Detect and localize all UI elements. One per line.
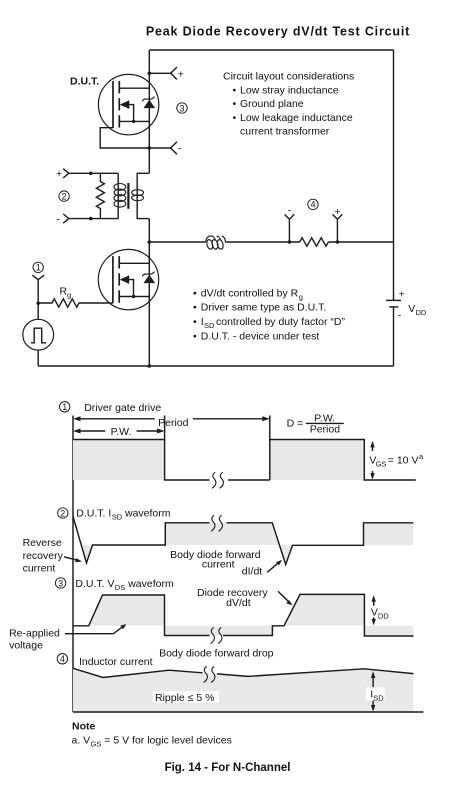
svg-text:current: current <box>23 562 56 574</box>
node bottom junction <box>148 364 152 368</box>
waveform 4 inductor current <box>57 654 152 668</box>
svg-text:recovery: recovery <box>23 550 64 562</box>
arrows V_GS <box>369 441 424 480</box>
wire right bus lower <box>393 307 395 366</box>
fill right block <box>364 523 414 545</box>
node Rg junction <box>36 302 40 306</box>
svg-text:P.W.: P.W. <box>314 412 335 424</box>
svg-text:-: - <box>398 309 402 321</box>
fraction D = P.W./Period <box>287 412 344 435</box>
wire gate-source wrap D.U.T. <box>100 128 149 148</box>
diode body D.U.T. <box>142 97 155 109</box>
fill body diode forward <box>165 523 279 545</box>
svg-text:Re-applied: Re-applied <box>9 627 60 639</box>
node 1 marker <box>33 262 43 273</box>
svg-text:2: 2 <box>62 191 67 201</box>
fill inductor current <box>73 668 413 712</box>
svg-text:4: 4 <box>60 654 65 664</box>
svg-text:dV/dt controlled by R: dV/dt controlled by R <box>201 287 299 299</box>
node minus probe transformer <box>57 213 119 225</box>
label dI/dt <box>242 560 282 578</box>
break symbol wf4 <box>204 667 215 683</box>
svg-text:Ripple ≤ 5 %: Ripple ≤ 5 % <box>155 692 214 704</box>
battery VDD <box>386 289 427 322</box>
svg-text:•: • <box>193 287 197 299</box>
fill strip body diode drop <box>165 626 273 636</box>
svg-text:controlled by duty factor “D”: controlled by duty factor “D” <box>216 316 345 328</box>
svg-text:SD: SD <box>112 512 123 521</box>
transistor D.U.T. upper MOSFET <box>98 74 158 134</box>
diode body driver <box>142 272 155 284</box>
waveform 2 D.U.T. I_SD <box>58 507 171 521</box>
fill pulse 2 VDS <box>284 594 364 625</box>
svg-text:Reverse: Reverse <box>23 537 62 549</box>
svg-text:a. V: a. V <box>72 735 91 747</box>
trace gate drive <box>73 416 416 481</box>
fill strip right VDS <box>364 626 413 636</box>
svg-text:Circuit layout considerations: Circuit layout considerations <box>223 71 354 83</box>
svg-text:Fig. 14 - For N-Channel: Fig. 14 - For N-Channel <box>165 762 291 774</box>
label body diode forward current <box>170 549 261 571</box>
svg-text:V: V <box>408 303 415 315</box>
svg-text:= 10 V: = 10 V <box>388 455 419 467</box>
svg-text:current transformer: current transformer <box>240 126 330 138</box>
svg-text:+: + <box>178 68 184 80</box>
arrow period <box>73 416 270 429</box>
svg-text:= 5 V for logic level devices: = 5 V for logic level devices <box>104 735 232 747</box>
svg-text:DS: DS <box>115 583 125 592</box>
resistor transformer damping <box>96 173 104 218</box>
svg-text:-: - <box>288 205 292 217</box>
break symbol wf1 <box>212 472 223 488</box>
wire left bus mid <box>148 219 150 366</box>
generator pulse source <box>23 303 54 366</box>
transistor driver lower MOSFET <box>98 249 158 309</box>
svg-text:dI/dt: dI/dt <box>242 566 263 578</box>
svg-text:Body diode forward drop: Body diode forward drop <box>159 647 274 659</box>
svg-text:Peak Diode Recovery dV/dt Test: Peak Diode Recovery dV/dt Test Circuit <box>146 25 410 39</box>
svg-text:Period: Period <box>158 417 189 429</box>
svg-text:•: • <box>233 98 237 110</box>
fill pulse 1 VDS <box>89 595 165 626</box>
break symbol wf2 <box>211 515 222 531</box>
label re-applied voltage <box>9 624 126 651</box>
svg-text:•: • <box>193 331 197 343</box>
svg-text:dV/dt: dV/dt <box>226 597 251 609</box>
svg-text:•: • <box>193 302 197 314</box>
svg-text:-: - <box>178 143 182 155</box>
note a <box>72 735 232 749</box>
waveform 1 driver gate drive <box>59 402 161 414</box>
svg-text:+: + <box>56 168 62 180</box>
text dV/dt bullets <box>193 287 345 342</box>
waveform 3 D.U.T. V_DS <box>55 578 174 592</box>
wire left bus upper <box>148 50 150 173</box>
svg-text:GS: GS <box>376 459 387 468</box>
node 4 marker <box>308 199 318 210</box>
svg-text:•: • <box>233 112 237 124</box>
svg-text:GS: GS <box>91 740 102 749</box>
svg-text:3: 3 <box>58 578 63 588</box>
svg-text:Low stray inductance: Low stray inductance <box>240 85 339 97</box>
text circuit layout considerations <box>223 71 354 138</box>
pulse 1 fill <box>73 440 165 481</box>
wire middle with node <box>148 240 152 244</box>
svg-text:D.U.T.: D.U.T. <box>70 76 99 88</box>
node minus probe <box>148 142 182 155</box>
trace inductor current <box>73 668 413 677</box>
svg-text:V: V <box>371 607 378 619</box>
node 3 marker <box>177 103 187 114</box>
svg-text:•: • <box>193 316 197 328</box>
svg-text:D =: D = <box>287 417 304 429</box>
arrow P.W. <box>73 426 165 438</box>
svg-text:+: + <box>399 289 405 301</box>
arrows I_SD <box>366 671 385 711</box>
inductor L <box>206 236 226 250</box>
svg-text:current: current <box>202 559 235 571</box>
label ripple <box>153 691 220 704</box>
node plus probe top <box>148 67 184 80</box>
svg-text:Low leakage inductance: Low leakage inductance <box>240 112 353 124</box>
svg-text:D.U.T. I: D.U.T. I <box>76 507 111 519</box>
resistor middle <box>300 238 329 246</box>
wire right bus upper <box>393 50 395 300</box>
svg-text:Period: Period <box>310 424 341 436</box>
svg-text:waveform: waveform <box>124 507 171 519</box>
svg-text:Note: Note <box>72 721 95 733</box>
svg-text:P.W.: P.W. <box>111 426 132 438</box>
svg-text:g: g <box>299 292 303 301</box>
trace I_SD <box>73 517 413 565</box>
svg-text:4: 4 <box>310 200 315 210</box>
transformer T1 <box>114 173 149 218</box>
probe node 1 <box>32 275 44 303</box>
svg-text:1: 1 <box>62 402 67 412</box>
svg-text:Driver same type as D.U.T.: Driver same type as D.U.T. <box>201 302 326 314</box>
fill dip 2 <box>279 545 292 565</box>
svg-text:DD: DD <box>378 611 389 620</box>
svg-text:SD: SD <box>204 321 215 330</box>
svg-text:DD: DD <box>416 308 427 317</box>
svg-text:2: 2 <box>60 508 65 518</box>
svg-text:Inductor current: Inductor current <box>79 656 153 668</box>
svg-text:SD: SD <box>373 694 384 703</box>
svg-text:Driver gate drive: Driver gate drive <box>84 402 161 414</box>
pulse 2 fill <box>270 440 365 481</box>
probe plus middle <box>333 206 343 244</box>
svg-text:D.U.T. - device under test: D.U.T. - device under test <box>201 331 320 343</box>
trace V_DS <box>73 594 414 636</box>
node 2 marker <box>59 191 69 201</box>
wire bottom <box>38 365 393 367</box>
arrows V_DD <box>371 595 389 625</box>
resistor R_g <box>38 285 113 307</box>
svg-text:waveform: waveform <box>127 578 174 590</box>
fill dip 1 <box>81 545 92 563</box>
svg-text:-: - <box>57 213 61 225</box>
svg-text:1: 1 <box>36 263 41 273</box>
svg-text:g: g <box>67 291 71 300</box>
axis vertical line <box>72 416 74 713</box>
svg-text:D.U.T. V: D.U.T. V <box>75 578 114 590</box>
svg-text:Ground plane: Ground plane <box>240 98 304 110</box>
label diode recovery dV/dt <box>197 587 293 609</box>
svg-text:•: • <box>233 85 237 97</box>
break symbol wf3 <box>211 628 222 644</box>
svg-text:+: + <box>334 206 340 218</box>
svg-text:3: 3 <box>179 103 184 113</box>
baseline wf4 <box>73 711 423 713</box>
label reverse recovery current <box>23 537 82 574</box>
svg-text:voltage: voltage <box>9 640 43 652</box>
node plus probe transformer <box>56 168 118 180</box>
probe minus middle <box>285 205 295 244</box>
wire top <box>149 49 393 51</box>
